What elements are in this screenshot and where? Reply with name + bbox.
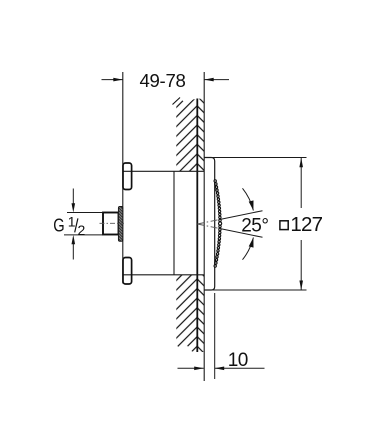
svg-text:49-78: 49-78 xyxy=(139,70,185,91)
svg-text:127: 127 xyxy=(290,213,322,236)
svg-text:G: G xyxy=(53,214,64,235)
svg-text:10: 10 xyxy=(228,350,248,371)
svg-text:25°: 25° xyxy=(241,216,268,237)
svg-text:2: 2 xyxy=(78,222,86,238)
svg-text:1: 1 xyxy=(68,214,76,230)
